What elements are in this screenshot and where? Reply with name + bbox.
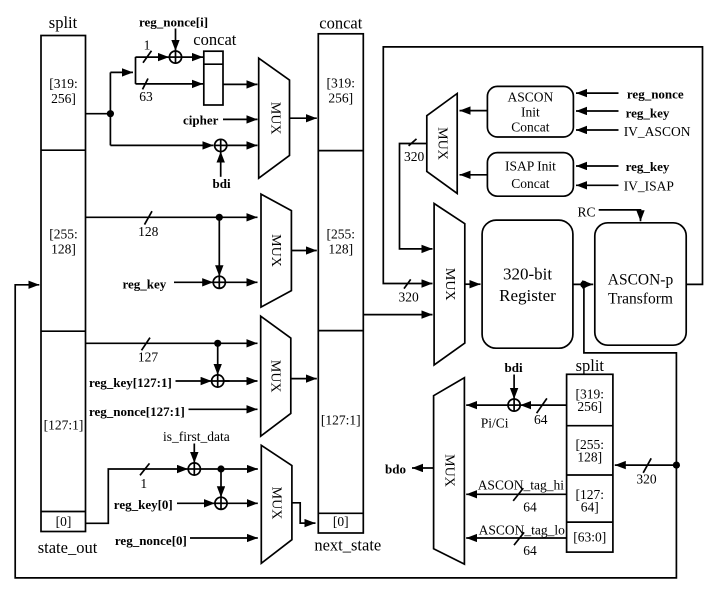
svg-text:split: split <box>49 13 78 32</box>
svg-text:reg_nonce[0]: reg_nonce[0] <box>115 533 187 548</box>
mux MUX1 <box>259 58 290 178</box>
svg-text:reg_key: reg_key <box>626 106 670 121</box>
svg-text:concat: concat <box>319 14 362 33</box>
svg-text:is_first_data: is_first_data <box>163 429 230 444</box>
wire MUX A output to MUX B <box>400 144 433 249</box>
svg-text:next_state: next_state <box>314 536 381 555</box>
bus slash 128 <box>145 211 153 224</box>
svg-text:64: 64 <box>523 543 537 558</box>
svg-text:64]: 64] <box>581 500 599 515</box>
svg-text:63: 63 <box>139 89 153 104</box>
svg-text:ISAP Init: ISAP Init <box>505 159 556 174</box>
svg-text:128]: 128] <box>328 242 353 257</box>
wire ASCON Init to MUX A <box>460 110 488 112</box>
svg-text:reg_nonce[127:1]: reg_nonce[127:1] <box>89 404 185 419</box>
node junction row3 <box>214 340 221 347</box>
node junction row4 <box>217 465 224 472</box>
svg-text:[127:1]: [127:1] <box>44 418 84 433</box>
mux MUX2 <box>261 194 291 307</box>
svg-text:IV_ASCON: IV_ASCON <box>624 124 691 139</box>
svg-text:MUX: MUX <box>267 102 282 135</box>
svg-text:bdi: bdi <box>213 176 231 191</box>
bus slash 64 tag_hi <box>513 488 523 501</box>
wire feedback loop top (ASCON-p out, up, across, down into MUX B) <box>383 47 702 285</box>
label [127:64] right <box>576 487 605 515</box>
svg-text:bdo: bdo <box>385 462 406 477</box>
svg-text:IV_ISAP: IV_ISAP <box>624 179 674 194</box>
wire next_state to MUX B <box>363 314 432 316</box>
svg-text:RC: RC <box>578 205 596 220</box>
wire split[127:1] to MUX3 <box>86 342 258 344</box>
svg-text:concat: concat <box>193 30 236 49</box>
wire bdo output <box>412 467 434 469</box>
svg-text:reg_key[127:1]: reg_key[127:1] <box>89 375 172 390</box>
svg-text:1: 1 <box>144 38 151 53</box>
wire xor to concat box <box>181 56 203 58</box>
svg-text:state_out: state_out <box>38 538 98 557</box>
split register state_out (left column) <box>41 36 86 532</box>
xor gate row1a <box>169 51 181 63</box>
wire reg_nonce[0] to MUX4 <box>190 537 258 539</box>
box ASCON Init Concat <box>487 86 573 137</box>
svg-text:[255:: [255: <box>49 227 78 242</box>
wire 320 into split right register <box>615 464 677 466</box>
svg-text:128]: 128] <box>577 450 602 465</box>
wire ISAP Init to MUX A <box>460 174 488 176</box>
bus slash 127 <box>142 338 151 351</box>
wire ASCON_tag_lo to MUX C <box>466 537 566 539</box>
svg-text:128]: 128] <box>51 242 76 257</box>
svg-text:MUX: MUX <box>267 360 282 393</box>
svg-text:Register: Register <box>499 286 556 305</box>
svg-text:[0]: [0] <box>56 514 72 529</box>
wire split[0] up to row4 <box>86 469 189 523</box>
svg-text:[0]: [0] <box>333 514 349 529</box>
svg-text:320: 320 <box>404 149 425 164</box>
box ASCON-p Transform U2 <box>595 223 686 345</box>
wire 1-bit branch <box>136 56 170 58</box>
svg-text:ASCON-p: ASCON-p <box>608 272 674 289</box>
wire reg_key to xor <box>174 281 213 283</box>
node junction row2 <box>216 214 223 221</box>
svg-text:reg_nonce[i]: reg_nonce[i] <box>139 15 208 30</box>
label [255:128] left <box>49 227 78 257</box>
split register (bottom right) <box>567 374 613 552</box>
wire bdi up arrow <box>220 152 222 177</box>
label [255:128] right <box>576 437 605 465</box>
svg-text:[319:: [319: <box>327 76 356 91</box>
node register output junction <box>580 281 587 288</box>
wire MUX4 output <box>292 503 316 523</box>
bus slash 64 PiCi <box>537 398 547 413</box>
wire reg_key into ASCON Init <box>576 110 619 112</box>
wire cipher to MUX1 <box>223 118 258 120</box>
svg-text:reg_nonce: reg_nonce <box>627 87 684 102</box>
svg-text:256]: 256] <box>577 399 602 414</box>
wire MUX1 output <box>290 117 317 119</box>
wire 63-bit branch <box>136 83 204 85</box>
svg-text:bdi: bdi <box>505 360 523 375</box>
svg-text:Init: Init <box>521 105 540 120</box>
wire RC into ASCON-p <box>599 210 641 221</box>
wire reg_key[0] to xor <box>177 502 215 504</box>
node junction right feedback <box>673 462 680 469</box>
label [319:256] left <box>49 76 78 106</box>
wire MUX3 output <box>291 378 317 380</box>
xor gate row4b <box>215 497 227 509</box>
wire is_first_data down arrow <box>193 444 195 464</box>
svg-text:128: 128 <box>138 224 159 239</box>
box 320-bit Register U1 <box>482 220 573 348</box>
wire row1 to bdi xor <box>110 144 213 146</box>
mux MUX A (init select) <box>427 94 457 194</box>
svg-text:64: 64 <box>534 412 548 427</box>
wire IV_ISAP into ISAP Init <box>576 184 619 186</box>
wire reg_nonce into ASCON Init <box>576 92 619 94</box>
xor gate row2 <box>213 276 225 288</box>
svg-text:256]: 256] <box>328 91 353 106</box>
svg-text:127: 127 <box>138 350 159 365</box>
wire ASCON_tag_hi to MUX C <box>466 493 566 495</box>
svg-text:256]: 256] <box>51 91 76 106</box>
bus slash 320 right <box>643 458 651 473</box>
wire IV_ASCON into ASCON Init <box>576 129 619 131</box>
wire row1 vertical branch <box>109 72 111 145</box>
svg-text:[319:: [319: <box>49 76 78 91</box>
wire split[255:128] to MUX2 <box>86 216 258 218</box>
wire reg_nonce[127:1] to MUX3 <box>189 408 258 410</box>
svg-text:320: 320 <box>399 290 420 305</box>
xor gate row4a <box>188 463 200 475</box>
wire concat box to MUX1 <box>223 83 258 85</box>
svg-text:320: 320 <box>636 472 657 487</box>
svg-text:MUX: MUX <box>434 127 449 160</box>
concat register next_state (middle column) <box>318 34 363 533</box>
svg-text:320-bit: 320-bit <box>503 265 552 284</box>
wire MUX2 output <box>291 250 316 252</box>
mux MUX B (state select) <box>434 204 465 366</box>
wire reg_key[127:1] to xor <box>176 380 212 382</box>
svg-text:1: 1 <box>140 476 147 491</box>
svg-text:reg_key[0]: reg_key[0] <box>114 497 173 512</box>
svg-text:MUX: MUX <box>268 234 283 267</box>
wire Pi/Ci to MUX C <box>466 404 508 406</box>
wire bdi down arrow <box>513 375 515 400</box>
label [319:256] middle <box>327 76 356 106</box>
svg-text:cipher: cipher <box>183 113 219 128</box>
xor gate row3 <box>212 375 230 387</box>
svg-text:[63:0]: [63:0] <box>573 530 606 545</box>
bus slash 320 feedback <box>404 279 411 288</box>
mux MUX3 <box>261 316 291 436</box>
svg-text:Concat: Concat <box>511 176 549 191</box>
svg-text:Concat: Concat <box>511 120 549 135</box>
wire feedback to state_out (down, across bottom, up left, into split) <box>15 284 676 578</box>
label [319:256] right <box>576 387 605 415</box>
wire register output <box>573 283 593 285</box>
bus slash 1 <box>143 51 152 63</box>
svg-text:[255:: [255: <box>327 227 356 242</box>
box ISAP Init Concat <box>487 153 573 197</box>
wire MUX B to register <box>465 283 481 285</box>
wire row2 down arrow <box>218 217 220 276</box>
bus slash 63 <box>143 79 149 90</box>
svg-text:64: 64 <box>523 500 537 515</box>
wire row4 down arrow <box>220 469 222 497</box>
svg-text:ASCON: ASCON <box>508 90 554 105</box>
xor gate Pi/Ci <box>508 399 520 411</box>
label [255:128] middle <box>327 227 356 257</box>
wire xor row4a to MUX4 <box>200 468 258 470</box>
svg-text:MUX: MUX <box>268 487 283 520</box>
svg-text:reg_key: reg_key <box>123 277 167 292</box>
mux MUX C (bdo select) <box>434 378 465 564</box>
wire xor row4b to MUX4 <box>227 502 258 504</box>
mux MUX4 <box>261 445 292 563</box>
node junction row1 <box>107 110 114 117</box>
node 1/63 bracket <box>135 57 137 84</box>
wire row3 down arrow <box>217 343 219 375</box>
wire xor row2 to MUX2 <box>225 281 257 283</box>
wire reg_key into ISAP Init <box>576 165 619 167</box>
wire xor row3 to MUX3 <box>224 380 258 382</box>
svg-text:[127:1]: [127:1] <box>321 413 361 428</box>
bus slash 1 row4 <box>140 463 150 475</box>
wire reg_nonce[i] down arrow <box>175 29 177 51</box>
concat box <box>204 51 223 105</box>
svg-text:MUX: MUX <box>442 268 457 301</box>
bus slash 320 init <box>409 139 417 146</box>
bus slash 64 tag_lo <box>514 532 524 545</box>
svg-text:reg_key: reg_key <box>626 159 670 174</box>
svg-text:split: split <box>576 356 605 375</box>
wire arrow into 1/63 split bracket <box>110 71 133 73</box>
svg-text:Transform: Transform <box>608 291 673 308</box>
wire split[319:256] tap <box>86 113 111 115</box>
svg-text:Pi/Ci: Pi/Ci <box>481 416 509 431</box>
wire bdi xor to MUX1 <box>227 144 258 146</box>
wire split to Pi/Ci xor <box>520 404 566 406</box>
svg-text:MUX: MUX <box>441 454 456 487</box>
xor gate row1b bdi <box>215 139 227 151</box>
